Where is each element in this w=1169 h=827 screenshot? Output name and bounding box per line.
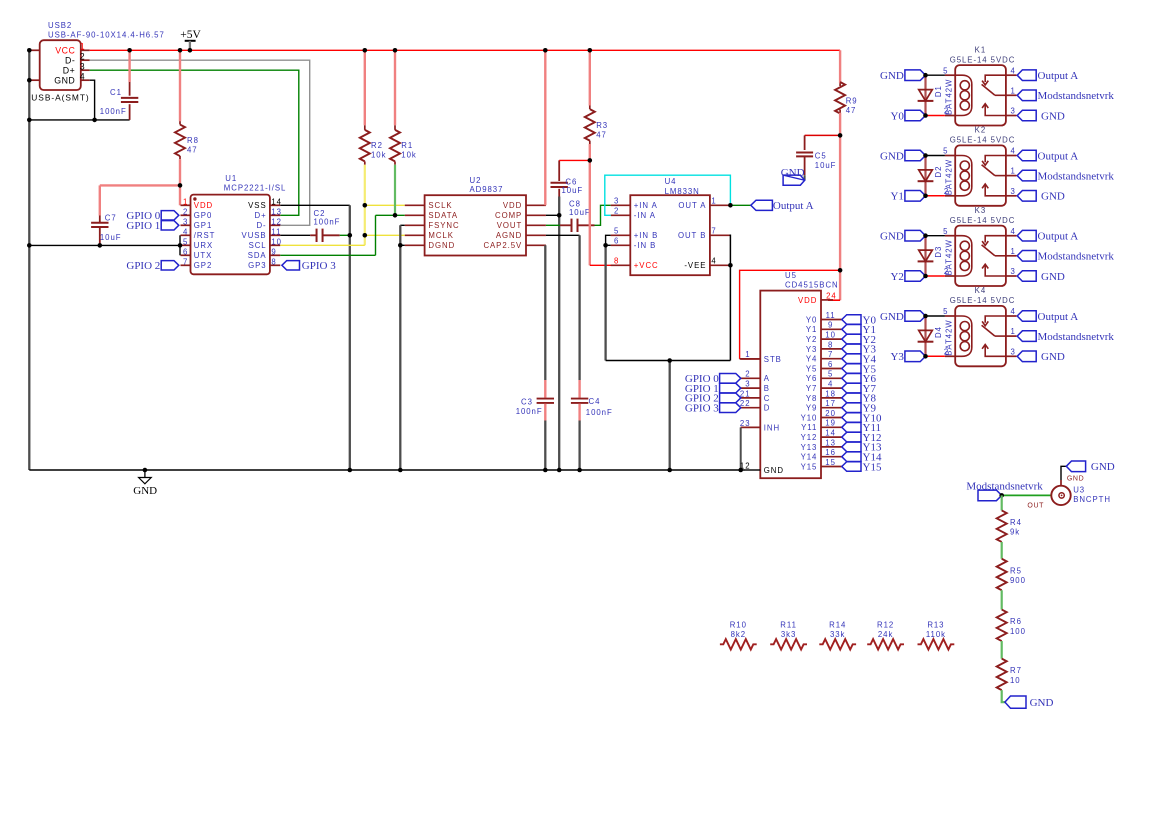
junction	[178, 183, 183, 188]
svg-text:BAT42W: BAT42W	[945, 239, 954, 275]
svg-text:1: 1	[1011, 86, 1016, 95]
label Y0 K1	[905, 110, 926, 121]
junction	[348, 468, 353, 473]
svg-text:1: 1	[1011, 247, 1016, 256]
wire SDA/SDATA green net	[394, 165, 396, 216]
label Output A K3	[1017, 230, 1036, 241]
svg-text:INH: INH	[764, 423, 780, 432]
svg-text:5: 5	[614, 227, 619, 236]
label GND right K3	[1017, 271, 1036, 282]
svg-text:24: 24	[826, 291, 837, 300]
USB2 pin 4 GND	[81, 79, 90, 81]
K2 pin 3	[1006, 195, 1017, 197]
U1 pin 1 VDD	[181, 204, 191, 206]
svg-text:GND: GND	[1030, 697, 1054, 709]
svg-text:URX: URX	[194, 241, 213, 250]
U4 pin 7 OUT B	[710, 234, 730, 236]
wire Y2 to K3 pin2	[926, 275, 945, 277]
svg-text:GND: GND	[880, 311, 904, 323]
label GND chain	[1005, 696, 1026, 708]
svg-text:17: 17	[825, 399, 836, 408]
U5 pin 2 A	[741, 377, 761, 379]
svg-text:6: 6	[183, 247, 188, 256]
diode D3 BAT42W	[924, 236, 926, 276]
svg-text:1: 1	[183, 197, 188, 206]
junction	[577, 468, 582, 473]
svg-text:D2: D2	[934, 166, 943, 178]
K1 pin 2	[945, 115, 955, 117]
svg-text:4: 4	[828, 380, 833, 389]
svg-text:GPIO 3: GPIO 3	[302, 260, 336, 272]
U5 pin 8 Y3	[821, 348, 842, 350]
junction K1 bottom	[923, 113, 928, 118]
svg-text:Y14: Y14	[801, 453, 818, 462]
junction	[27, 48, 32, 53]
IC U1 MCP2221-I/SL	[191, 195, 270, 275]
svg-text:D1: D1	[934, 85, 943, 97]
K3 coil	[955, 236, 972, 276]
USB2 shield pins left	[29, 49, 39, 51]
svg-text:33k: 33k	[830, 630, 845, 639]
svg-text:100: 100	[1010, 627, 1026, 636]
resistor R8	[179, 50, 181, 121]
svg-text:2: 2	[614, 207, 619, 216]
svg-text:8: 8	[271, 257, 276, 266]
label Y11	[842, 423, 861, 433]
wire VOUT to +IN A	[595, 205, 611, 225]
svg-text:GND: GND	[1041, 271, 1065, 283]
svg-text:Output A: Output A	[1038, 150, 1079, 162]
U1 pin 2 GP0	[181, 214, 191, 216]
capacitor C8	[546, 224, 560, 226]
svg-text:COMP: COMP	[495, 211, 522, 220]
svg-text:A: A	[764, 374, 770, 383]
resistor R11	[770, 639, 807, 649]
svg-text:3: 3	[1011, 187, 1016, 196]
label GND right K2	[1017, 191, 1036, 202]
wire COMP to C6 net	[546, 214, 559, 216]
svg-text:7: 7	[711, 227, 716, 236]
wire to BNC	[1002, 494, 1052, 496]
svg-text:100nF: 100nF	[100, 107, 127, 116]
svg-text:D-: D-	[65, 55, 75, 65]
IC U5 CD4515BCN	[760, 291, 821, 479]
label GND K2	[905, 150, 926, 161]
svg-text:-IN B: -IN B	[634, 241, 657, 250]
USB2 pin 3 D+	[81, 69, 90, 71]
svg-text:10k: 10k	[371, 150, 386, 159]
svg-text:R6: R6	[1010, 617, 1022, 626]
label Modstandsnetvrk K3	[1017, 251, 1036, 262]
svg-text:9k: 9k	[1010, 528, 1020, 537]
U5 pin 18 Y8	[821, 397, 842, 399]
junction	[348, 233, 353, 238]
svg-text:5: 5	[943, 227, 948, 236]
svg-text:+IN B: +IN B	[634, 231, 658, 240]
resistor R2	[364, 50, 366, 125]
U5 pin 1 STB stub	[741, 358, 761, 360]
svg-text:Output A: Output A	[1038, 311, 1079, 323]
svg-text:U3: U3	[1073, 485, 1085, 494]
wire D- net	[90, 60, 310, 225]
wire U2 VDD supply	[544, 50, 546, 205]
svg-text:G5LE-14 5VDC: G5LE-14 5VDC	[950, 296, 1016, 305]
label Output A K1	[1017, 70, 1036, 81]
U5 pin 11 Y0	[821, 319, 842, 321]
K3 pin 2	[945, 275, 955, 277]
svg-text:+VCC: +VCC	[634, 261, 659, 270]
svg-text:GND: GND	[880, 231, 904, 243]
U1 pin 11 VUSB	[270, 234, 280, 236]
svg-text:20: 20	[825, 409, 836, 418]
svg-text:1: 1	[1011, 167, 1016, 176]
svg-text:R14: R14	[829, 621, 846, 630]
svg-text:D: D	[764, 404, 771, 413]
label Y14	[842, 452, 861, 462]
junction	[127, 48, 132, 53]
U5 pin 15 Y15	[821, 466, 842, 468]
svg-text:16: 16	[825, 448, 836, 457]
U5 pin 9 Y1	[821, 328, 842, 330]
U5 pin 6 Y5	[821, 368, 842, 370]
label Output A	[751, 200, 773, 210]
wire OUT A to label	[730, 204, 750, 206]
svg-text:23: 23	[740, 419, 751, 428]
label GPIO flag B	[720, 383, 741, 393]
wire GND to K2 pin5	[926, 155, 945, 157]
K2 coil	[955, 156, 972, 196]
capacitor C5	[804, 135, 806, 150]
junction	[667, 358, 672, 363]
svg-text:K4: K4	[975, 286, 986, 295]
junction	[588, 158, 593, 163]
svg-text:100nF: 100nF	[516, 407, 543, 416]
svg-text:21: 21	[740, 389, 751, 398]
K4 coil	[955, 316, 972, 356]
label Modstandsnetvrk K2	[1017, 170, 1036, 181]
svg-text:MCP2221-I/SL: MCP2221-I/SL	[224, 183, 287, 192]
U5 pin 21 C	[741, 397, 761, 399]
svg-text:47: 47	[187, 146, 198, 155]
svg-text:U1: U1	[225, 174, 237, 183]
ground symbol GND	[144, 470, 146, 478]
svg-text:Modstandsnetvrk: Modstandsnetvrk	[1038, 251, 1115, 263]
label Modstandsnetvrk K1	[1017, 90, 1036, 101]
svg-text:U2: U2	[470, 176, 482, 185]
junction K2 top	[923, 153, 928, 158]
svg-text:SDATA: SDATA	[428, 211, 458, 220]
svg-text:Y5: Y5	[806, 364, 817, 373]
svg-text:8: 8	[614, 257, 619, 266]
svg-text:110k: 110k	[926, 630, 946, 639]
svg-text:Y4: Y4	[806, 355, 817, 364]
U5 pin 14 Y12	[821, 436, 842, 438]
svg-text:1: 1	[80, 42, 86, 52]
U1 pin 4 /RST	[181, 234, 191, 236]
K1 switch	[985, 75, 1006, 82]
svg-text:Output A: Output A	[773, 200, 814, 212]
svg-text:R4: R4	[1010, 518, 1022, 527]
svg-text:Y7: Y7	[806, 384, 817, 393]
capacitor C1	[128, 50, 130, 82]
svg-text:Y15: Y15	[863, 461, 882, 473]
svg-text:MCLK: MCLK	[428, 231, 453, 240]
svg-text:4: 4	[1011, 147, 1016, 156]
svg-text:OUT B: OUT B	[678, 231, 706, 240]
U4 pin 6 -IN B	[611, 244, 631, 246]
svg-text:D3: D3	[934, 246, 943, 258]
svg-text:Output A: Output A	[1038, 231, 1079, 243]
svg-text:G5LE-14 5VDC: G5LE-14 5VDC	[950, 216, 1016, 225]
svg-text:CAP2.5V: CAP2.5V	[483, 241, 522, 250]
K3 pin 1	[1006, 255, 1017, 257]
svg-text:5: 5	[943, 66, 948, 75]
U4 pin 1 OUT A	[710, 204, 730, 206]
junction	[398, 243, 403, 248]
svg-text:4: 4	[711, 257, 716, 266]
K1 pin 4	[1006, 74, 1017, 76]
wire SCL/SCLK/MCLK yellow net	[364, 165, 366, 246]
svg-text:5: 5	[183, 237, 188, 246]
svg-text:10uF: 10uF	[569, 208, 591, 217]
svg-text:/RST: /RST	[194, 231, 216, 240]
svg-text:C7: C7	[105, 213, 117, 222]
svg-text:7: 7	[183, 257, 188, 266]
label GPIO flag A	[720, 374, 741, 384]
label Y0	[842, 315, 861, 325]
svg-text:24k: 24k	[878, 630, 893, 639]
svg-text:R12: R12	[877, 621, 894, 630]
connector USB2	[40, 40, 81, 90]
wire C7 link	[100, 184, 180, 186]
K2 pin 1	[1006, 175, 1017, 177]
label Y13	[842, 442, 861, 452]
svg-text:10uF: 10uF	[815, 161, 837, 170]
svg-text:D4: D4	[934, 326, 943, 338]
svg-text:K3: K3	[975, 206, 986, 215]
junction K4 bottom	[923, 354, 928, 359]
junction	[178, 243, 183, 248]
svg-text:DGND: DGND	[428, 241, 455, 250]
svg-text:USB-AF-90-10X14.4-H6.57: USB-AF-90-10X14.4-H6.57	[48, 30, 165, 39]
svg-text:3: 3	[1011, 107, 1016, 116]
svg-text:GND: GND	[1041, 351, 1065, 363]
svg-text:4: 4	[80, 72, 86, 82]
connector U3 BNCPTH	[1051, 486, 1070, 505]
svg-text:OUT: OUT	[1027, 503, 1044, 510]
svg-text:10: 10	[825, 331, 836, 340]
label Y1 K2	[905, 191, 926, 202]
svg-text:GND: GND	[1041, 191, 1065, 203]
junction	[398, 468, 403, 473]
resistor R3	[589, 50, 591, 105]
svg-text:13: 13	[825, 438, 836, 447]
junction	[838, 133, 843, 138]
svg-text:8k2: 8k2	[731, 630, 746, 639]
svg-text:AD9837: AD9837	[470, 185, 504, 194]
svg-text:VUSB: VUSB	[242, 231, 267, 240]
svg-text:47: 47	[596, 130, 607, 139]
wire +VCC supply	[589, 160, 591, 265]
resistor R14	[819, 639, 856, 649]
wire FSYNC to ground	[400, 224, 405, 226]
wire USB GND	[90, 80, 95, 120]
svg-text:D+: D+	[63, 65, 76, 75]
U5 pin 5 Y6	[821, 377, 842, 379]
label Y5	[842, 364, 861, 374]
junction	[178, 48, 183, 53]
svg-text:Y10: Y10	[801, 413, 818, 422]
svg-text:-IN A: -IN A	[634, 211, 656, 220]
label Y7	[842, 383, 861, 393]
svg-text:BAT42W: BAT42W	[945, 159, 954, 195]
resistor R9	[839, 50, 841, 83]
U5 pin 3 B	[741, 387, 761, 389]
wire OUT B to -VEE	[729, 235, 732, 360]
wire chain segment	[1001, 641, 1003, 659]
svg-text:9: 9	[271, 247, 276, 256]
label Y15	[842, 462, 861, 472]
svg-text:K2: K2	[975, 126, 986, 135]
junction	[363, 48, 368, 53]
K4 pin 3	[1006, 355, 1017, 357]
label GND K3	[905, 230, 926, 241]
diode D4 BAT42W	[924, 316, 926, 356]
svg-text:G5LE-14 5VDC: G5LE-14 5VDC	[950, 55, 1016, 64]
svg-text:4: 4	[183, 227, 188, 236]
svg-text:-VEE: -VEE	[684, 261, 706, 270]
U1 pin 6 UTX	[181, 254, 191, 256]
svg-text:11: 11	[271, 227, 281, 236]
U5 pin 20 Y10	[821, 417, 842, 419]
svg-text:GP3: GP3	[248, 261, 266, 270]
svg-text:Y9: Y9	[806, 404, 817, 413]
svg-text:R11: R11	[780, 621, 797, 630]
label GPIO 3	[282, 261, 300, 270]
svg-text:13: 13	[271, 207, 282, 216]
label GND right K1	[1017, 110, 1036, 121]
wire C6 top link	[559, 159, 590, 161]
junction	[728, 263, 733, 268]
svg-text:Y3: Y3	[806, 345, 817, 354]
wire INH to rail	[740, 427, 742, 470]
label Y12	[842, 432, 861, 442]
U4 pin 5 +IN B	[611, 234, 631, 236]
junction K3 bottom	[923, 274, 928, 279]
U1 pin 10 SCL	[270, 244, 280, 246]
wire main GND rail	[29, 469, 745, 471]
svg-text:22: 22	[740, 399, 751, 408]
resistor R7	[997, 659, 1007, 691]
wire D+ net	[90, 70, 299, 215]
U2 pin MCLK	[405, 234, 425, 236]
svg-text:1: 1	[1011, 327, 1016, 336]
svg-text:3: 3	[80, 62, 86, 72]
capacitor C3	[544, 245, 546, 380]
U2 pin DGND	[405, 244, 425, 246]
svg-text:4: 4	[1011, 307, 1016, 316]
svg-text:R3: R3	[596, 121, 608, 130]
label Y1	[842, 325, 861, 335]
svg-text:47: 47	[846, 106, 857, 115]
svg-text:2: 2	[80, 52, 86, 62]
junction K3 top	[923, 233, 928, 238]
svg-text:C5: C5	[815, 152, 827, 161]
svg-text:19: 19	[825, 419, 836, 428]
capacitor C7	[99, 185, 101, 215]
wire GND to K1 pin5	[926, 74, 945, 76]
wire GND to K3 pin5	[926, 235, 945, 237]
resistor R1	[394, 50, 396, 125]
svg-text:VSS: VSS	[248, 201, 266, 210]
svg-text:SDA: SDA	[248, 251, 267, 260]
svg-text:3: 3	[183, 217, 188, 226]
label Modstandsnetvrk K4	[1017, 331, 1036, 342]
IC U2 AD9837	[425, 195, 526, 255]
label GPIO flag C	[720, 393, 741, 403]
U5 pin 16 Y14	[821, 456, 842, 458]
svg-text:BAT42W: BAT42W	[945, 319, 954, 355]
U4 pin 8 +VCC	[611, 264, 631, 266]
svg-text:SCLK: SCLK	[428, 201, 452, 210]
capacitor C2	[280, 234, 310, 236]
svg-text:VDD: VDD	[503, 201, 522, 210]
wire inB down to gnd row	[604, 245, 606, 360]
K1 pin 3	[1006, 115, 1017, 117]
wire gnd drop to rail	[669, 361, 671, 471]
label Y6	[842, 374, 861, 384]
U2 pin SDATA	[405, 214, 425, 216]
label Output A K4	[1017, 311, 1036, 322]
K2 pin 5	[945, 155, 955, 157]
junction	[557, 468, 562, 473]
svg-text:Output A: Output A	[1038, 70, 1079, 82]
junction	[363, 203, 368, 208]
svg-text:9: 9	[828, 321, 833, 330]
U5 pin 24 VDD	[821, 299, 833, 301]
K2 switch	[985, 156, 1006, 163]
svg-text:100nF: 100nF	[586, 408, 613, 417]
U5 pin 7 Y4	[821, 358, 842, 360]
svg-text:2: 2	[183, 207, 188, 216]
svg-text:FSYNC: FSYNC	[428, 221, 459, 230]
U1 pin 8 GP3	[270, 264, 280, 266]
U1 pin 13 D+	[270, 214, 280, 216]
svg-text:900: 900	[1010, 576, 1026, 585]
svg-text:K1: K1	[975, 45, 986, 54]
USB2 pin 1 VCC	[81, 49, 90, 51]
svg-text:18: 18	[825, 389, 836, 398]
svg-text:15: 15	[825, 458, 836, 467]
svg-text:10uF: 10uF	[562, 186, 584, 195]
junction	[588, 48, 593, 53]
label GND K1	[905, 70, 926, 81]
U1 pin 3 GP1	[181, 224, 191, 226]
wire VCC bus	[90, 49, 840, 51]
svg-text:VOUT: VOUT	[497, 221, 522, 230]
svg-text:USB2: USB2	[48, 21, 72, 30]
svg-text:B: B	[764, 384, 770, 393]
label Output A K2	[1017, 150, 1036, 161]
K4 pin 5	[945, 315, 955, 317]
svg-text:4: 4	[1011, 227, 1016, 236]
svg-text:BAT42W: BAT42W	[945, 79, 954, 115]
junction	[603, 243, 608, 248]
capacitor C6	[558, 160, 560, 181]
svg-text:C3: C3	[521, 397, 533, 406]
svg-text:10uF: 10uF	[100, 233, 122, 242]
svg-text:GND: GND	[880, 150, 904, 162]
